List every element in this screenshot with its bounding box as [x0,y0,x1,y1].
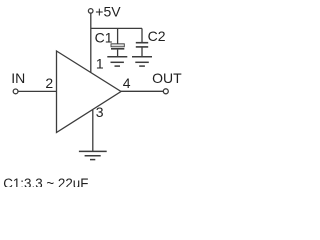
ground under C2 [132,57,152,66]
svg-text:C1:3.3 ~ 22uF: C1:3.3 ~ 22uF [3,176,88,187]
ground under C1 [107,57,127,66]
wire +5V vertical to pin 1 [90,13,92,72]
wire C1 lower lead [117,50,119,57]
svg-text:3: 3 [96,104,104,120]
wire C1 upper lead [117,28,119,43]
wire C2 lower lead [141,47,143,57]
svg-text:+5V: +5V [95,4,121,20]
svg-text:C2: C2 [148,28,166,44]
svg-text:2: 2 [45,75,53,91]
wire IN to pin 2 [18,90,56,92]
wire pin 3 to ground [92,110,94,152]
wire C2 upper lead [141,28,143,42]
wire pin 4 to OUT [121,90,163,92]
svg-text:OUT: OUT [152,70,182,86]
svg-text:4: 4 [123,75,131,91]
op-amp U1 triangle [57,51,122,133]
svg-text:IN: IN [11,70,25,86]
ground at pin 3 [79,151,107,159]
wire top rail [91,27,142,29]
terminal IN [13,89,18,94]
capacitor C2 [136,43,148,47]
svg-text:1: 1 [96,55,104,71]
terminal +5V [88,9,93,14]
capacitor C1 [111,44,124,47]
terminal OUT [163,89,168,94]
svg-text:C1: C1 [95,29,113,45]
